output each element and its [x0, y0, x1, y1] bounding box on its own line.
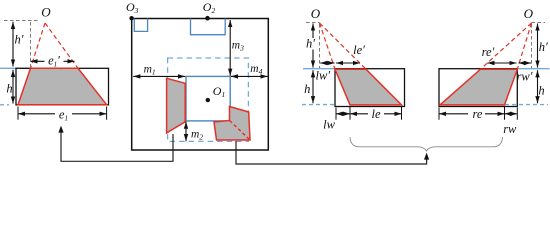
- svg-text:m4: m4: [250, 63, 262, 76]
- svg-text:h: h: [6, 81, 12, 95]
- svg-text:m2: m2: [191, 129, 203, 142]
- svg-text:O: O: [524, 6, 534, 21]
- svg-text:le′: le′: [353, 43, 365, 57]
- svg-text:O1: O1: [213, 84, 225, 99]
- svg-text:m3: m3: [232, 40, 244, 53]
- svg-text:re′: re′: [482, 45, 495, 59]
- svg-text:h′: h′: [539, 40, 548, 54]
- svg-text:lw: lw: [323, 118, 335, 132]
- svg-text:O: O: [311, 6, 321, 21]
- svg-text:rw′: rw′: [517, 69, 533, 83]
- svg-text:O3: O3: [126, 0, 139, 15]
- svg-text:le: le: [371, 107, 380, 121]
- svg-text:h′: h′: [306, 37, 315, 51]
- svg-text:m1: m1: [144, 63, 156, 76]
- svg-text:re: re: [473, 107, 483, 121]
- svg-text:lw′: lw′: [316, 69, 331, 83]
- svg-text:h: h: [304, 82, 310, 96]
- svg-text:h′: h′: [15, 32, 24, 46]
- svg-text:O2: O2: [203, 0, 216, 15]
- svg-text:rw: rw: [503, 122, 517, 136]
- svg-text:O: O: [41, 4, 51, 19]
- svg-text:h: h: [538, 84, 544, 98]
